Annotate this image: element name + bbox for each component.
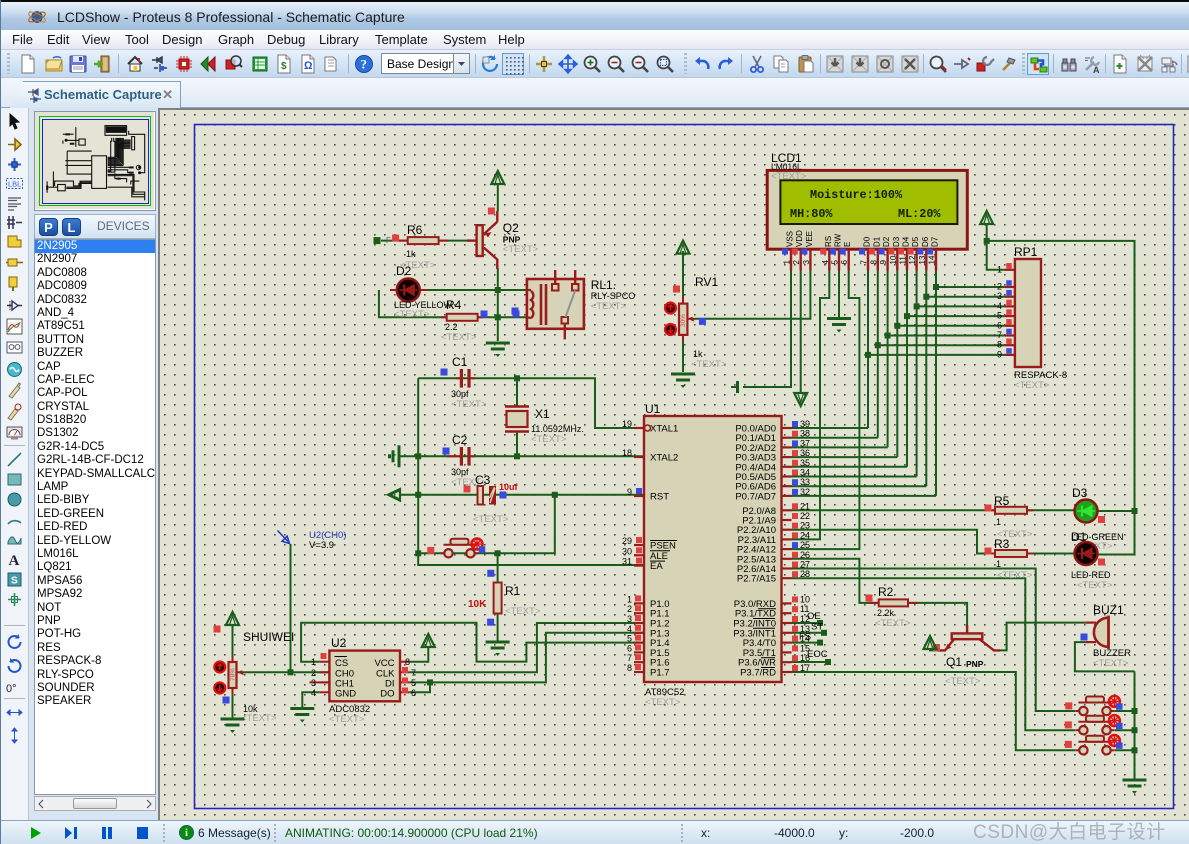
wire R6 input to Q2 base (381, 240, 477, 242)
svg-text:LBL: LBL (8, 180, 21, 189)
wire VCC rail to right vertical (987, 241, 1135, 555)
svg-text:<TEXT>: <TEXT> (329, 714, 365, 725)
buzzer BUZ1 (1094, 618, 1109, 647)
svg-text:A: A (1093, 65, 1100, 74)
MCU U1 AT89C52 (644, 416, 782, 682)
crystal X1 (505, 405, 529, 407)
wire Q2 collector down to D2/relay row (497, 268, 499, 341)
svg-text:D1: D1 (1071, 530, 1087, 544)
U1 pin 37 P0.2/AD2 (782, 446, 792, 448)
junction D6 to RP1 (923, 294, 929, 300)
svg-text:<TEXT>: <TEXT> (997, 570, 1033, 581)
svg-text:R1: R1 (505, 584, 521, 598)
wire P3.7 to button3 (792, 672, 1076, 750)
svg-text:RST: RST (650, 492, 669, 503)
LCD pin 2 VDD (800, 249, 802, 270)
svg-text:D3: D3 (1072, 486, 1088, 500)
wire P2.2 to R3 (792, 530, 996, 554)
wire P3.6 EOC stub (792, 661, 829, 663)
svg-text:4: 4 (997, 301, 1002, 311)
svg-text:<TEXT>: <TEXT> (241, 713, 277, 724)
svg-text:2: 2 (311, 668, 316, 678)
capacitor C2 (447, 455, 460, 457)
wire LCD VSS pin1 to bar terminal (743, 270, 791, 387)
RP1 pin 8 (1005, 344, 1015, 346)
svg-text:0°: 0° (6, 683, 17, 695)
wire button1 right (1115, 710, 1135, 712)
U1 pin 11 P3.1/TXD (782, 612, 792, 614)
LCD pin 14 D7 (935, 249, 937, 270)
bar terminal LCD VSS (736, 381, 739, 393)
power arrow SHUIWEI (226, 612, 239, 625)
svg-text:<TEXT>: <TEXT> (441, 332, 477, 343)
U1 pin 34 P0.5/AD5 (782, 475, 792, 477)
svg-text:1: 1 (783, 260, 792, 265)
wire Q1 emitter to power (930, 649, 938, 650)
U1 pin 18 XTAL2 (634, 456, 644, 458)
U1 pin 10 P3.0/RXD (782, 602, 792, 604)
wire RV1 top power (682, 251, 684, 296)
svg-text:C1: C1 (452, 355, 468, 369)
wire D2 to RP1 pin7 (888, 335, 1005, 337)
wire P2.6 to button1 (792, 569, 1076, 712)
junction D3 cathode (1132, 508, 1138, 514)
svg-text:U1: U1 (645, 402, 661, 416)
transistor Q1 (966, 625, 968, 633)
U1 pin 9 RST (634, 495, 644, 497)
resistor R4 (441, 316, 447, 318)
svg-text:D4: D4 (902, 236, 911, 247)
svg-text:LM016L: LM016L (771, 162, 802, 172)
svg-text:R3: R3 (994, 537, 1010, 551)
U1 pin 3 P1.2 (634, 622, 644, 624)
svg-text:D6: D6 (921, 236, 930, 247)
left panel (29, 108, 158, 820)
LCD pin 1 VSS (790, 249, 792, 270)
svg-text:7: 7 (411, 668, 416, 678)
input terminal RST (388, 489, 400, 501)
wire R4 right to relay coil bottom (478, 316, 527, 318)
svg-text:R6: R6 (407, 223, 423, 237)
svg-text:E: E (843, 242, 852, 247)
svg-text:X1: X1 (535, 407, 550, 421)
svg-text:P0.7/AD7: P0.7/AD7 (735, 491, 776, 502)
U1 pin 25 P2.4/A12 (782, 548, 792, 550)
svg-text:D7: D7 (931, 236, 940, 247)
svg-text:ST: ST (811, 622, 823, 633)
wire LCD D7 pin14 to P0.7 (935, 270, 937, 496)
svg-text:RS: RS (824, 236, 833, 247)
wire LCD RW pin5 to ground (838, 270, 840, 317)
LCD pin 12 D5 (915, 249, 917, 270)
ground R1 (486, 641, 510, 644)
RP1 pin 7 (1005, 334, 1015, 336)
power down arrow LCD VDD (794, 393, 807, 406)
svg-text:30pf: 30pf (451, 389, 469, 399)
svg-text:RL1.: RL1. (591, 278, 616, 292)
ground SHUIWEI (221, 718, 245, 721)
svg-text:8: 8 (869, 260, 878, 265)
U1 pin 16 P3.6/WR (782, 661, 792, 663)
svg-text:RV1: RV1 (695, 275, 718, 289)
wire LCD D1 pin8 to P0.1 (877, 270, 879, 438)
LCD pin 4 RS (828, 249, 830, 270)
svg-text:10: 10 (800, 594, 810, 604)
schematic canvas (158, 108, 1189, 820)
capacitor C3 electrolytic (478, 486, 484, 505)
svg-text:Q2: Q2 (503, 221, 519, 235)
wire LCD E pin6 to P2.4 (792, 270, 860, 549)
wire SHUIWEI bottom to ground (232, 687, 234, 718)
svg-text:30: 30 (622, 546, 632, 556)
junction Q2 collector / D2 row (495, 287, 501, 293)
U1 pin 1 P1.0 (634, 602, 644, 604)
menu bar (1, 30, 1189, 50)
IC U2 ADC0832 (329, 651, 400, 702)
LCD pin 8 D1 (877, 249, 879, 270)
LCD pin 11 D4 (906, 249, 908, 270)
svg-text:1k: 1k (693, 349, 703, 359)
wire LCD D2 pin9 to P0.2 (887, 270, 889, 447)
U1 pin 5 P1.4 (634, 641, 644, 643)
svg-text:9: 9 (997, 349, 1002, 359)
wire D3 to RP1 pin6 (897, 325, 1004, 327)
svg-text:ML:20%: ML:20% (898, 207, 941, 221)
svg-text:21: 21 (800, 501, 810, 511)
wire P3.2 OE stub (792, 622, 821, 624)
ground U2 (290, 707, 314, 710)
junction voltage probe tap (288, 669, 294, 675)
junction C2 left rail (415, 453, 421, 459)
U1 pin 24 P2.3/A11 (782, 538, 792, 540)
LCD pin 13 D6 (925, 249, 927, 270)
svg-text:31: 31 (622, 557, 632, 567)
svg-text:34: 34 (800, 468, 810, 478)
svg-text:R2: R2 (878, 585, 894, 599)
svg-text:35: 35 (800, 458, 810, 468)
svg-text:5: 5 (997, 311, 1002, 321)
ground RV1 (671, 373, 695, 376)
respack RP1 (1015, 259, 1041, 367)
svg-text:8: 8 (627, 663, 632, 673)
svg-text:A: A (9, 553, 20, 569)
wire RP1 pin1 to VCC rail (987, 223, 1005, 270)
power arrow U2 VCC (422, 634, 435, 647)
svg-text:Ω: Ω (304, 60, 313, 72)
svg-text:13: 13 (918, 255, 927, 264)
junction RST rail (415, 492, 421, 498)
wire R5 to D3 (1027, 509, 1075, 511)
power arrow RP1 (980, 211, 993, 224)
left tool column (1, 108, 29, 820)
svg-text:<TEXT>: <TEXT> (503, 244, 539, 255)
wire C1 row to XTAL1 (418, 378, 644, 428)
svg-text:6: 6 (627, 643, 632, 653)
capacitor C1 (456, 377, 460, 379)
svg-text:1: 1 (627, 594, 632, 604)
LCD pin 3 VEE (809, 249, 811, 270)
title bar (1, 0, 1189, 30)
svg-text:9: 9 (879, 260, 888, 265)
wire D5 to RP1 pin4 (917, 305, 1005, 307)
left ground rail vertical (418, 378, 644, 565)
svg-text:7: 7 (860, 260, 869, 265)
ground buttons (1123, 779, 1147, 782)
svg-text:<TEXT>: <TEXT> (505, 606, 541, 617)
svg-text:4: 4 (821, 260, 830, 265)
svg-text:3: 3 (627, 614, 632, 624)
U1 pin 28 P2.7/A15 (782, 577, 792, 579)
svg-text:1: 1 (997, 264, 1002, 274)
svg-text:P2.7/A15: P2.7/A15 (737, 574, 776, 585)
RP1 pin 3 (1005, 296, 1015, 298)
svg-text:24: 24 (800, 530, 810, 540)
wire LCD D4 pin11 to P0.4 (906, 270, 908, 467)
svg-text:4: 4 (627, 624, 632, 634)
svg-text:19: 19 (622, 419, 632, 429)
svg-text:XTAL2: XTAL2 (650, 453, 678, 464)
svg-text:VCC: VCC (374, 658, 394, 669)
svg-text:14: 14 (928, 255, 937, 264)
U1 pin 22 P2.1/A9 (782, 519, 792, 521)
junction D1 to RP1 (875, 342, 881, 348)
svg-text:10: 10 (889, 255, 898, 264)
svg-text:D1: D1 (872, 236, 881, 247)
svg-text:3: 3 (997, 291, 1002, 301)
resistor R2 (869, 602, 879, 604)
junction D0 to RP1 (865, 352, 871, 358)
svg-text:12: 12 (908, 255, 917, 264)
wire LCD D3 pin10 to P0.3 (896, 270, 898, 457)
RP1 pin 9 (1005, 354, 1015, 356)
U1 pin 36 P0.3/AD3 (782, 456, 792, 458)
junction X1 bottom / XTAL2 row (514, 453, 520, 459)
svg-text:7: 7 (997, 330, 1002, 340)
wire U2 DI to P1.3 (410, 633, 644, 683)
junction D3 to RP1 (894, 323, 900, 329)
tab bar (1, 78, 1189, 108)
U1 pin 38 P0.1/AD1 (782, 437, 792, 439)
svg-text:i: i (185, 828, 188, 839)
svg-text:29: 29 (622, 536, 632, 546)
svg-text:6: 6 (411, 688, 416, 698)
svg-text:30pf: 30pf (451, 467, 469, 477)
svg-text:VEE: VEE (805, 231, 814, 247)
svg-text:U2: U2 (331, 636, 347, 650)
svg-text:Moisture:100%: Moisture:100% (810, 188, 903, 202)
ground left C2 row (398, 445, 401, 467)
LCD pin 6 E (848, 249, 850, 270)
RP1 pin 4 (1005, 305, 1015, 307)
U1 pin 8 P1.7 (634, 671, 644, 673)
svg-text:<TEXT>: <TEXT> (531, 434, 567, 445)
U1 pin 27 P2.6/A14 (782, 567, 792, 569)
svg-text:<TEXT>: <TEXT> (451, 399, 487, 410)
svg-text:27: 27 (800, 560, 810, 570)
junction R4 row / ground rail (495, 314, 501, 320)
svg-text:26: 26 (800, 550, 810, 560)
U1 pin 31 EA (634, 564, 644, 566)
relay RL1 (527, 279, 584, 329)
svg-text:2: 2 (997, 282, 1002, 292)
svg-text:<TEXT>: <TEXT> (473, 514, 509, 525)
pot SHUIWEI (229, 662, 237, 688)
wire LCD D6 pin13 to P0.6 (925, 270, 927, 486)
svg-text:P3.7/RD: P3.7/RD (740, 668, 776, 679)
svg-text:VDD: VDD (795, 230, 804, 247)
toolbar (1, 50, 1189, 78)
svg-text:EOC: EOC (807, 649, 828, 660)
wire U2 GND to ground (302, 692, 319, 707)
svg-text:5: 5 (831, 260, 840, 265)
svg-text:D0: D0 (863, 236, 872, 247)
svg-text:<TEXT>: <TEXT> (645, 697, 681, 708)
wire LCD D0 pin7 to P0.0 (867, 270, 869, 428)
LCD pin 5 RW (838, 249, 840, 270)
svg-text:6: 6 (840, 260, 849, 265)
wire LCD VEE pin3 to RV1 wiper (695, 270, 810, 319)
wire P3.3 ST stub (792, 632, 825, 634)
U1 pin 12 P3.2/INT0 (782, 622, 792, 624)
wire X1 bottom lead (516, 431, 518, 456)
svg-text:LED-RED: LED-RED (1071, 570, 1111, 580)
junction R1 top (495, 550, 501, 556)
status bar (1, 820, 1189, 844)
svg-text:4: 4 (311, 688, 316, 698)
U1 pin 33 P0.6/AD6 (782, 485, 792, 487)
junction RST right vertical (552, 492, 558, 498)
wire P3.4 FS stub (792, 642, 821, 644)
wire RV1 bottom ground (682, 335, 684, 372)
wire P2.5 to R2 (792, 559, 879, 603)
wire buzzer bottom to button rail (1075, 642, 1135, 671)
svg-text:7: 7 (627, 653, 632, 663)
svg-text:38: 38 (800, 429, 810, 439)
U1 pin 6 P1.5 (634, 651, 644, 653)
power arrow RV1 (677, 241, 690, 254)
wire VCC to Q2 emitter (497, 183, 499, 211)
wire D4 to RP1 pin5 (907, 315, 1005, 317)
power arrow Q2 (491, 171, 504, 184)
resistor R1 (494, 583, 502, 614)
svg-text:RLY-SPCO: RLY-SPCO (591, 291, 636, 301)
wire D1 to RP1 pin8 (878, 344, 1005, 346)
svg-text:?: ? (361, 57, 368, 72)
svg-text:RW: RW (834, 233, 843, 247)
wire U2 VCC to power (410, 647, 429, 662)
svg-text:11.0592MHz.: 11.0592MHz. (531, 424, 584, 434)
U1 pin 4 P1.3 (634, 632, 644, 634)
junction VCC rail (984, 238, 990, 244)
button K2 (1079, 726, 1087, 734)
svg-text:2.2k: 2.2k (877, 608, 895, 618)
U1 pin 7 P1.6 (634, 661, 644, 663)
U1 pin 17 P3.7/RD (782, 671, 792, 673)
svg-text:D5: D5 (911, 236, 920, 247)
U1 pin 32 P0.7/AD7 (782, 495, 792, 497)
U1 pin 26 P2.5/A13 (782, 558, 792, 560)
button K1 (1079, 707, 1087, 715)
U1 pin 19 XTAL1 (645, 425, 651, 431)
U1 pin 35 P0.4/AD4 (782, 466, 792, 468)
wire U2 CS to P1.4 (301, 623, 644, 662)
U1 pin 15 P3.5/T1 (782, 651, 792, 653)
svg-text:8: 8 (405, 657, 410, 667)
resistor R6 (398, 240, 408, 242)
svg-text:36: 36 (800, 448, 810, 458)
terminal input R6 (374, 237, 381, 244)
wire D2 left loop rail (379, 290, 447, 317)
svg-text:D2: D2 (882, 236, 891, 247)
ground LCD RW (827, 317, 851, 320)
LCD pin 7 D0 (867, 249, 869, 270)
svg-text:22: 22 (800, 511, 810, 521)
svg-text:11: 11 (899, 256, 908, 265)
svg-text:<TEXT>: <TEXT> (1093, 658, 1129, 669)
svg-text:<TEXT>: <TEXT> (1014, 380, 1050, 391)
svg-text:D3: D3 (892, 236, 901, 247)
RP1 pin 5 (1005, 315, 1015, 317)
svg-text:<TEXT>: <TEXT> (691, 359, 727, 370)
svg-text:2.2: 2.2 (445, 322, 458, 332)
svg-text:10uf: 10uf (499, 482, 519, 492)
wire D2 row to relay coil top (419, 289, 527, 291)
junction button left rail (415, 550, 421, 556)
svg-text:F: F (386, 236, 391, 245)
wire X1 top lead (516, 378, 518, 407)
svg-text:1: 1 (311, 657, 316, 667)
resistor R3 (989, 553, 995, 555)
wire R1 branch to ground (497, 553, 499, 641)
svg-text:$: $ (281, 61, 287, 72)
wire D7 to RP1 pin2 (936, 286, 1005, 288)
svg-text:XTAL1: XTAL1 (650, 424, 678, 435)
junction DI/DO tie (427, 679, 433, 685)
RP1 pin 6 (1005, 325, 1015, 327)
svg-text:PNP: PNP (503, 235, 521, 245)
wire LCD RS pin4 to P2.3 (792, 270, 830, 539)
svg-text:3: 3 (311, 678, 316, 688)
svg-text:39: 39 (800, 419, 810, 429)
junction D2 to RP1 (885, 333, 891, 339)
svg-text:5: 5 (627, 634, 632, 644)
svg-text:<TEXT>: <TEXT> (945, 676, 981, 687)
svg-text:6: 6 (997, 320, 1002, 330)
U1 pin 30 ALE (634, 554, 644, 556)
svg-text:23: 23 (800, 521, 810, 531)
svg-text:3: 3 (802, 260, 811, 265)
svg-text:<TEXT>: <TEXT> (394, 309, 430, 320)
svg-text:C3: C3 (475, 473, 491, 487)
svg-text:1: 1 (996, 559, 1001, 569)
svg-text:<TEXT>: <TEXT> (591, 301, 627, 312)
wire P2.7 to button2 (792, 578, 1076, 730)
svg-text:32: 32 (800, 487, 810, 497)
svg-text:1k: 1k (406, 249, 416, 259)
wire R2 to Q1 base (908, 603, 967, 631)
svg-text:1: 1 (996, 517, 1001, 527)
U1 pin 23 P2.2/A10 (782, 529, 792, 531)
resistor R5 (989, 509, 995, 511)
svg-text:<TEXT>: <TEXT> (1077, 580, 1113, 591)
svg-text:2: 2 (627, 604, 632, 614)
svg-text:28: 28 (800, 569, 810, 579)
svg-text:5: 5 (411, 678, 416, 688)
svg-text:17: 17 (800, 663, 810, 673)
svg-text:BUZ1: BUZ1 (1093, 603, 1124, 617)
junction D4 to RP1 (904, 313, 910, 319)
ground under relay rail (486, 342, 510, 345)
